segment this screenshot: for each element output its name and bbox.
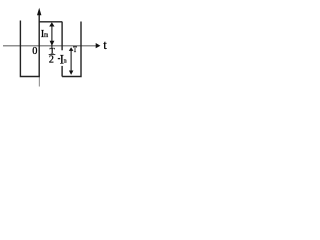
svg-text:m: m: [44, 30, 48, 39]
svg-text:t: t: [103, 38, 107, 52]
svg-text:0: 0: [32, 46, 37, 57]
svg-text:m: m: [64, 57, 67, 64]
svg-text:T: T: [73, 45, 77, 54]
svg-text:2: 2: [49, 54, 54, 65]
